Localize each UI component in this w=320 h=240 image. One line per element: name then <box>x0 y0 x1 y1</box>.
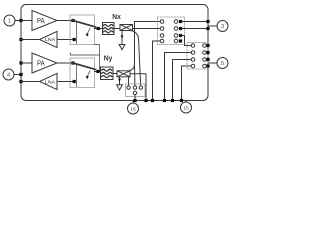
switch S1 actuation arrow <box>87 28 90 34</box>
svg-text:15: 15 <box>183 106 189 112</box>
svg-text:LNA: LNA <box>45 37 55 42</box>
antenna block pin 1 <box>127 86 130 89</box>
wire LNA2 output <box>21 81 40 83</box>
jumper B row4 plug junction on border <box>206 64 209 67</box>
terminal 4 <box>3 69 21 80</box>
jumper A row3 left socket <box>160 34 164 38</box>
wire coupler X2 main out then down to bottom bus <box>130 74 146 101</box>
wire long vertical node from row A1 down to antenna block <box>134 22 136 65</box>
wire jumper A row1 to right border <box>182 21 208 23</box>
jumper A row4 plug junction <box>179 39 182 42</box>
jumper block A box <box>158 17 185 45</box>
jumper A row1 plug junction <box>179 20 182 23</box>
svg-text:LNA: LNA <box>45 80 55 85</box>
jumper A row2 left socket <box>160 27 164 31</box>
wire filter Ny to coupler X2 <box>113 73 117 75</box>
amplifier PA1 <box>32 11 57 31</box>
amplifier LNA1 <box>40 31 58 47</box>
antenna block box <box>126 84 146 97</box>
switch S1 pole junction <box>71 19 74 22</box>
svg-text:PA: PA <box>37 61 45 68</box>
junction bottom bus x181.5 <box>180 99 183 102</box>
wire switch S1 common to filter Nx <box>95 28 103 30</box>
coupler X1 (crossed box) <box>120 25 133 31</box>
junction bottom bus x134.5 <box>133 99 136 102</box>
junction on left border for PA2 <box>19 61 22 64</box>
junction on left border for LNA2 <box>19 80 22 83</box>
jumper A row4 right socket <box>174 39 178 43</box>
wire LNA1 output <box>21 39 40 41</box>
amplifier PA2 <box>32 53 57 73</box>
junction bottom bus x172.5 <box>171 99 174 102</box>
jumper B row4 right socket <box>203 64 207 68</box>
wire row A1 horizontal <box>135 21 161 23</box>
jumper B row2 plug junction on border <box>206 51 209 54</box>
arrow below coupler X2 <box>117 77 123 90</box>
junction bottom bus x151.5 <box>151 99 154 102</box>
jumper B row1 plug junction on border <box>206 44 209 47</box>
jumper A row4 left socket <box>160 39 164 43</box>
jumper B row1 right socket <box>203 44 207 48</box>
switch S2 pole junction <box>71 61 74 64</box>
wire PA2 input <box>21 62 32 64</box>
wire coupler X1 main out to jumper row A2 <box>133 28 161 30</box>
switch S2 alternate throw line <box>75 64 77 87</box>
switch S1 box <box>70 15 95 45</box>
jumper B row2 right socket <box>203 51 207 55</box>
jumper A row2 right socket <box>174 27 178 31</box>
wire LNA2 input from switch S2 <box>57 81 75 83</box>
svg-text:1: 1 <box>8 19 11 25</box>
junction at filter Nx input <box>97 27 100 30</box>
jumper A row2 plug junction <box>179 27 182 30</box>
junction bottom bus x164.5 <box>163 99 166 102</box>
wire PA1 output to switch S1 <box>57 20 73 22</box>
jumper A row3 plug junction <box>179 34 182 37</box>
antenna block pin 4 <box>133 91 136 94</box>
svg-text:4: 4 <box>7 73 10 79</box>
jumper A row1 right socket <box>174 20 178 24</box>
junction on left border for LNA1 <box>19 38 22 41</box>
filter Ny <box>101 67 114 80</box>
switch S2 lower contact junction <box>73 80 76 83</box>
switch S2 box <box>70 58 95 88</box>
svg-text:Nx: Nx <box>112 12 121 21</box>
switch S1 arm <box>73 21 96 28</box>
switch S2 arm <box>73 63 96 70</box>
jumper B row4 left socket <box>191 64 195 68</box>
jumper B row2 left socket <box>191 51 195 55</box>
jumper B row3 plug junction on border <box>206 58 209 61</box>
wire jumper A row4 down to bottom bus <box>153 41 161 101</box>
wire jumper B row2 down to bottom bus <box>165 53 192 101</box>
terminal 15 <box>181 101 192 114</box>
svg-text:3: 3 <box>221 24 224 30</box>
wire coupler X2 coupled port (curve up) joining long vertical to row A1 <box>129 64 135 71</box>
jumper B row3 left socket <box>191 58 195 62</box>
wire cross-connect middle horizontal <box>70 53 99 56</box>
filter Nx <box>103 23 115 35</box>
jumper B row1 left socket <box>191 44 195 48</box>
wire jumper B row3 down to bottom bus <box>173 60 192 101</box>
junction right border row A1 <box>206 20 209 23</box>
switch S2 actuation arrow <box>87 71 90 77</box>
wire PA2 output to switch S2 <box>57 62 73 64</box>
svg-text:PA: PA <box>37 18 45 25</box>
switch S1 alternate throw line <box>75 22 77 44</box>
antenna block pin 2 <box>133 86 136 89</box>
wire antenna block pin4 to bottom bus <box>134 95 136 101</box>
terminal 3 <box>208 21 228 32</box>
svg-text:5: 5 <box>221 61 224 67</box>
wire jumper A row3 tail to jumper B row1 <box>182 36 191 46</box>
wire coupler X1 coupled port (curve down) <box>131 31 139 41</box>
jumper block B box <box>187 43 208 70</box>
wire cross-connect from switch S1 bottom to Ny input <box>95 45 100 72</box>
coupler X2 (crossed box) <box>117 71 130 77</box>
junction on left border for PA1 <box>19 19 22 22</box>
terminal 1 <box>4 15 21 26</box>
jumper A row1 left socket <box>160 20 164 24</box>
terminal 16 <box>128 101 139 115</box>
svg-text:Ny: Ny <box>104 54 113 63</box>
jumper B row3 right socket <box>203 58 207 62</box>
wire filter Nx to coupler X1 <box>114 28 120 30</box>
wire jumper B row4 down to bottom bus <box>182 66 192 101</box>
junction on left border for terminal 4 <box>19 73 22 76</box>
junction at filter Ny input <box>96 70 99 73</box>
antenna block pin 3 <box>139 86 142 89</box>
amplifier LNA2 <box>40 73 58 89</box>
junction right border row A2 <box>206 27 209 30</box>
junction bottom bus x146 <box>144 99 147 102</box>
jumper A row3 right socket <box>174 34 178 38</box>
arrow below coupler X1 <box>119 31 125 50</box>
wire coupler X2 lower port to antenna block <box>128 77 130 86</box>
module outline (rounded box, used as bus) <box>21 5 208 101</box>
wire jumper A row2 to right border <box>182 28 208 30</box>
terminal 5 <box>208 58 228 69</box>
wire LNA1 input from switch S1 <box>57 39 75 41</box>
svg-text:16: 16 <box>130 107 136 113</box>
wire PA1 input <box>21 20 32 22</box>
switch S1 lower contact junction <box>73 38 76 41</box>
wire switch S2 common to filter Ny <box>95 71 101 73</box>
